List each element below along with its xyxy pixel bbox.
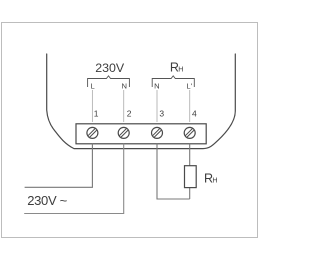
wire: terminal 3 to resistor RH bottom <box>157 144 190 199</box>
svg-text:230V: 230V <box>95 61 125 75</box>
svg-text:H: H <box>212 176 217 185</box>
terminal screw 3 <box>152 127 163 138</box>
bracket for 230V supply terminals <box>88 76 130 87</box>
terminal block TB1 <box>76 124 206 144</box>
pin label L' (terminal 4) <box>186 82 192 91</box>
wire: terminal 4 to resistor RH top <box>189 144 191 166</box>
device outline U1 (heating controller body, bottom view) <box>47 54 236 149</box>
bracket for RH terminals <box>152 76 194 87</box>
svg-text:N: N <box>154 82 159 91</box>
value label RH (resistor) <box>204 172 218 186</box>
pin number 3 <box>159 108 164 118</box>
leader line pin 3 <box>156 90 158 122</box>
svg-text:L': L' <box>186 82 192 91</box>
svg-text:1: 1 <box>94 108 99 118</box>
wire N: terminal 2 to 230V supply <box>24 144 124 214</box>
terminal screw 2 <box>118 127 129 138</box>
terminal screw 4 <box>184 127 195 138</box>
pin label N (terminal 3) <box>154 82 159 91</box>
pin label N (terminal 2) <box>121 82 126 91</box>
svg-text:4: 4 <box>192 108 197 118</box>
source label 230V ~ <box>27 193 67 208</box>
wire L: terminal 1 to 230V supply <box>25 144 93 188</box>
net label 230V <box>95 61 125 75</box>
leader line pin 1 <box>91 90 93 122</box>
pin number 4 <box>192 108 197 118</box>
pin number 1 <box>94 108 99 118</box>
wire: resistor RH bottom lead <box>189 188 191 199</box>
svg-text:L: L <box>90 82 94 91</box>
pin number 2 <box>127 108 132 118</box>
svg-text:3: 3 <box>159 108 164 118</box>
terminal screw 1 <box>87 127 98 138</box>
svg-text:H: H <box>178 65 183 74</box>
svg-text:2: 2 <box>127 108 132 118</box>
leader line pin 4 <box>189 90 191 122</box>
svg-text:N: N <box>121 82 126 91</box>
pin label L (terminal 1) <box>90 82 94 91</box>
svg-text:230V ~: 230V ~ <box>27 193 67 208</box>
leader line pin 2 <box>123 90 125 122</box>
resistor RH <box>185 166 197 188</box>
net label RH (top) <box>170 61 184 75</box>
